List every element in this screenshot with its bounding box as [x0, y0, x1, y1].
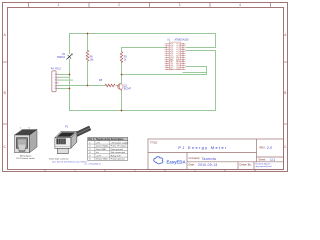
svg-text:Date:: Date:	[189, 162, 195, 166]
wire: R2 top to IC pin	[122, 48, 167, 52]
junction top rail / R6	[87, 33, 89, 35]
wire: Q1 collector	[121, 75, 123, 84]
wire: bottom rail	[70, 110, 216, 112]
svg-text:Rachel & Martins: Rachel & Martins	[255, 163, 270, 166]
cable	[72, 126, 91, 138]
svg-text:Data ground: Data ground	[111, 148, 124, 151]
P4 pin numbers 1-6	[55, 74, 57, 90]
wire: Q1 emitter down	[121, 90, 123, 111]
crystal/trimmer X1	[66, 54, 72, 60]
svg-text:Sheet:: Sheet:	[259, 157, 267, 161]
svg-text:EasyEDA: EasyEDA	[167, 160, 186, 165]
U1 pin numbers and pin names	[166, 44, 185, 72]
border ticks	[2, 2, 287, 171]
svg-text:1/1: 1/1	[270, 158, 275, 162]
svg-text:14: 14	[166, 69, 168, 71]
svg-text:PJ Energy Meter: PJ Energy Meter	[178, 145, 227, 150]
label crystal	[57, 54, 66, 59]
wire: top rail	[59, 34, 216, 111]
svg-text:3: 3	[179, 3, 181, 7]
IC U1 ATMEGA328	[165, 39, 189, 72]
label U1 ATMEGA328	[167, 39, 189, 42]
svg-text:Company:: Company:	[189, 156, 201, 160]
pin table	[85, 137, 130, 165]
junction Q1 emitter / bottom rail	[121, 110, 123, 112]
junction R6 / base rail	[87, 85, 89, 87]
svg-text:1: 1	[58, 3, 60, 7]
svg-text:RJ-12 male connector: RJ-12 male connector	[49, 157, 69, 160]
wire: right vertical from top rail to IC pin	[186, 34, 215, 48]
plug body top face	[55, 132, 77, 138]
svg-text:+5V power supply: +5V power supply	[111, 141, 129, 144]
svg-text:Relay 12V: Relay 12V	[111, 155, 122, 157]
svg-text:RJ-12 female socket: RJ-12 female socket	[16, 157, 35, 160]
junction P4 pin6 / left vertical	[69, 88, 71, 90]
label R6 10k	[90, 55, 95, 61]
svg-text:Not connected: Not connected	[111, 151, 126, 154]
svg-text:4: 4	[239, 3, 241, 7]
plug front face	[55, 138, 71, 149]
label R2 1k	[124, 55, 128, 61]
resistor R8	[105, 84, 115, 87]
P4 pin stubs 1-6	[56, 74, 59, 88]
transistor Q1	[118, 83, 124, 90]
front face groove	[55, 145, 70, 147]
svg-text:rjm.projects@mail: rjm.projects@mail	[255, 165, 272, 168]
svg-text:+5V: +5V	[96, 142, 100, 144]
svg-text:Power ground: Power ground	[111, 158, 125, 161]
wire: P4 pin6	[59, 88, 70, 90]
sheet border frame	[3, 3, 288, 172]
svg-text:Drawn By:: Drawn By:	[240, 162, 252, 166]
wire: right rail down	[186, 51, 215, 111]
svg-text:Data TX(pls): Data TX(pls)	[96, 145, 109, 148]
svg-text:Taomota: Taomota	[202, 157, 216, 161]
svg-text:15: 15	[182, 69, 184, 71]
svg-text:2: 2	[118, 3, 120, 7]
svg-text:Pin #: Pin #	[89, 139, 95, 141]
svg-text:2.0: 2.0	[267, 146, 272, 150]
svg-text:Power GND: Power GND	[96, 158, 108, 161]
wire: R2 bottom to junction	[121, 62, 123, 75]
resistor R6	[86, 50, 89, 61]
junction dots	[69, 33, 123, 112]
wire: IC right loop	[183, 67, 207, 75]
svg-text:ATMEGA328: ATMEGA328	[175, 39, 190, 42]
title block	[148, 139, 283, 170]
junction P4 pin1 / left vertical	[69, 74, 71, 76]
latch block	[57, 148, 68, 153]
label Q1 BC547	[124, 85, 132, 91]
border zone numbers	[4, 3, 288, 172]
svg-text:Data GND: Data GND	[96, 148, 107, 151]
svg-text:PB3: PB3	[176, 69, 179, 71]
svg-text:2010-09-13: 2010-09-13	[198, 163, 217, 167]
svg-text:REV:: REV:	[260, 146, 266, 150]
wire: base rail P4 pin5 to R8 to Q1	[59, 85, 118, 87]
svg-text:TITLE:: TITLE:	[150, 140, 158, 144]
svg-text:Signal name: Signal name	[96, 139, 110, 141]
wire: left vertical (crystal column)	[69, 34, 71, 111]
U1 pin stubs	[165, 44, 186, 70]
wire: collector rail y75	[122, 74, 207, 76]
image: RJ-12 female socket	[15, 127, 38, 160]
label P4 RJ12	[51, 67, 62, 70]
svg-text:B: B	[4, 91, 6, 95]
EasyEDA logo	[154, 157, 186, 165]
plug right side face	[71, 132, 77, 149]
contact bars	[57, 138, 66, 144]
wire: P4 pin2	[59, 76, 70, 78]
svg-text:acc. wiring (Step 7): acc. wiring (Step 7)	[85, 163, 102, 166]
svg-text:BC547: BC547	[124, 88, 132, 91]
wire: P4 pin1	[59, 74, 70, 76]
wire: P4 pin3	[59, 79, 73, 81]
connector P4	[51, 67, 62, 91]
svg-text:TA8D64: TA8D64	[57, 56, 66, 59]
wire: R6 column	[87, 34, 89, 86]
svg-text:RJ12: RJ12	[55, 67, 61, 70]
svg-text:B: B	[284, 91, 286, 95]
top dark inset	[57, 132, 75, 136]
label R8	[99, 79, 103, 82]
junction R2 / Q1 collector rail	[121, 74, 123, 76]
svg-text:PB0: PB0	[170, 69, 173, 71]
svg-text:Wiring layout: Wiring layout	[20, 154, 32, 157]
resistor R2	[120, 52, 123, 63]
svg-text:Pulse TX output: Pulse TX output	[111, 145, 127, 148]
svg-text:Description: Description	[111, 138, 124, 141]
svg-text:+12V: +12V	[96, 155, 102, 157]
image: RJ-12 male connector	[49, 125, 91, 163]
svg-text:from: How To Wire Reference (p: from: How To Wire Reference (p.7 Sheet)	[52, 160, 87, 163]
